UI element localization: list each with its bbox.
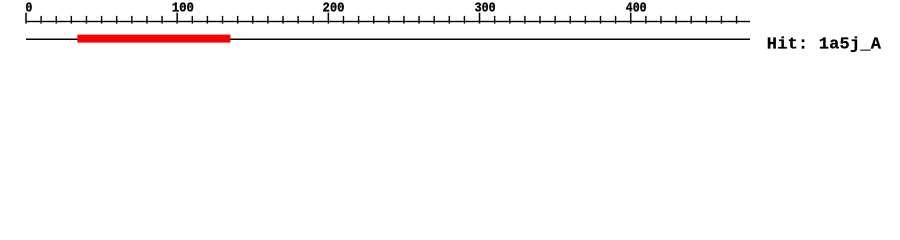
svg-text:200: 200 [323, 1, 345, 17]
minor ticks [40, 16, 41, 24]
major tick 300 [479, 13, 481, 24]
svg-text:Hit: 1a5j_A: Hit: 1a5j_A [767, 35, 882, 54]
svg-text:0: 0 [25, 1, 32, 17]
hit alignment bar (red) [77, 35, 230, 43]
svg-text:300: 300 [475, 1, 496, 17]
query sequence line [26, 39, 750, 41]
svg-text:400: 400 [626, 1, 647, 17]
svg-text:100: 100 [172, 1, 194, 17]
major tick 200 [328, 13, 330, 24]
ruler axis line [26, 21, 750, 22]
major tick 100 [176, 13, 178, 24]
major tick 400 [630, 13, 632, 24]
major tick 0 [25, 13, 27, 24]
